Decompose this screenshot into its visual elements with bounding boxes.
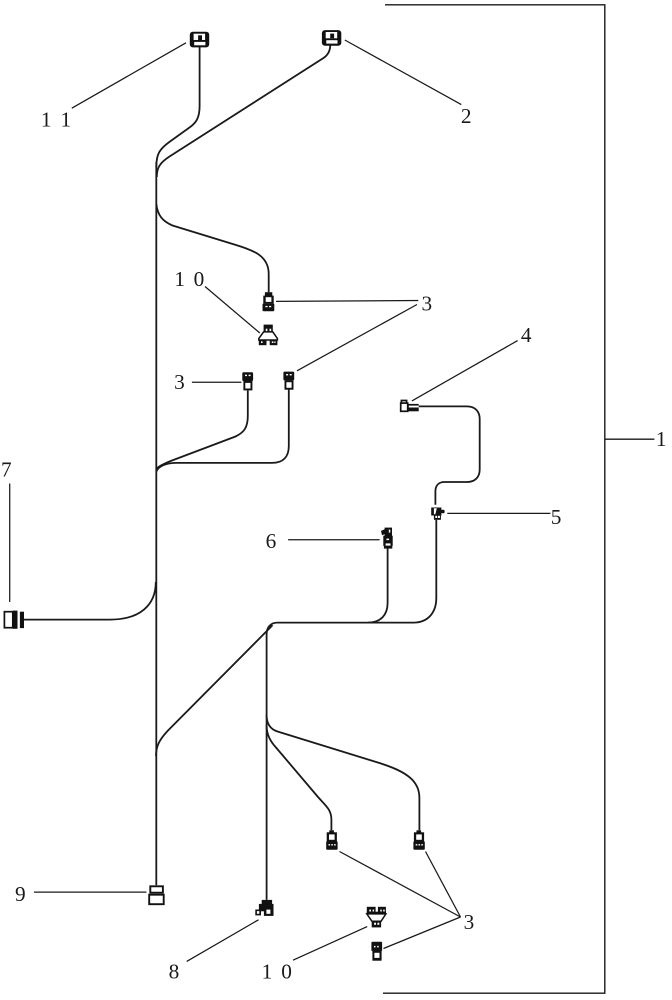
wire diagonal from junction to trunk bbox=[156, 625, 273, 756]
wire from connector 11 to trunk bbox=[156, 47, 199, 168]
wire from connector 2 to trunk bbox=[157, 45, 330, 178]
wire from connector 7 to trunk bbox=[24, 582, 156, 620]
svg-text:7: 7 bbox=[1, 457, 12, 481]
svg-text:0: 0 bbox=[281, 960, 292, 984]
connector 10 upper (Y adapter) bbox=[259, 325, 278, 346]
leader line from connector 3e to label 3 bottom bbox=[426, 852, 461, 918]
svg-text:9: 9 bbox=[15, 882, 26, 906]
wire from connector 5 down to junction and down to connector 8 bbox=[267, 520, 437, 900]
connector 11 bbox=[190, 32, 209, 48]
leader line from connector 3f to label 3 bottom bbox=[384, 917, 461, 949]
wire from connector 3c to trunk bbox=[156, 388, 288, 471]
wire branch to connector 3d (left lower) bbox=[267, 725, 332, 830]
connector 6 bbox=[381, 528, 393, 549]
svg-text:1: 1 bbox=[41, 108, 52, 132]
connector 3a bbox=[263, 292, 275, 311]
harness boundary bracket (item 1) bbox=[383, 5, 605, 993]
svg-text:3: 3 bbox=[421, 291, 432, 315]
leader line to label 3 left bbox=[192, 381, 242, 383]
wire from connector 3b to trunk bbox=[156, 390, 248, 469]
connector 9 bbox=[149, 886, 164, 904]
connector 3b bbox=[242, 372, 253, 390]
leader line from connector 3d to label 3 bottom bbox=[340, 852, 461, 918]
wire from connector 4 to connector 5 bbox=[419, 406, 480, 504]
svg-text:3: 3 bbox=[174, 370, 185, 394]
connector 3c bbox=[283, 372, 294, 390]
connector 5 bbox=[431, 508, 444, 520]
wire from connector 6 to horizontal run bbox=[368, 548, 388, 622]
leader line to label 2 bbox=[345, 40, 462, 105]
connector 3e bbox=[413, 830, 424, 850]
leader line from label 3 to connector 3c bbox=[297, 305, 417, 371]
leader line to label 9 bbox=[34, 891, 146, 893]
connector 7 bbox=[4, 611, 24, 629]
leader line to label 10 (lower) bbox=[293, 927, 367, 961]
svg-text:0: 0 bbox=[194, 267, 205, 291]
leader line to label 5 bbox=[447, 512, 550, 514]
leader line to label 1 bbox=[605, 438, 655, 440]
connector 3f bbox=[371, 942, 382, 961]
leader line to label 8 bbox=[187, 920, 259, 962]
leader line to label 6 bbox=[288, 539, 380, 541]
wire branch from trunk to connector 3a bbox=[156, 204, 268, 292]
wire trunk (main vertical) bbox=[155, 162, 157, 885]
svg-text:4: 4 bbox=[521, 323, 532, 347]
svg-text:2: 2 bbox=[461, 104, 472, 128]
svg-text:8: 8 bbox=[169, 960, 180, 984]
leader line to label 11 bbox=[72, 43, 186, 108]
svg-text:5: 5 bbox=[551, 505, 562, 529]
wire branch to connector 3e (right lower) bbox=[267, 715, 420, 830]
svg-text:1: 1 bbox=[60, 108, 71, 132]
svg-text:1: 1 bbox=[262, 960, 273, 984]
leader line to label 7 bbox=[9, 484, 11, 603]
connector 3d bbox=[326, 830, 337, 850]
svg-text:6: 6 bbox=[266, 529, 277, 553]
svg-text:3: 3 bbox=[464, 910, 475, 934]
leader line from connector 3a to label 3 bbox=[276, 300, 418, 303]
connector 8 bbox=[255, 900, 273, 916]
svg-text:1: 1 bbox=[174, 267, 185, 291]
leader line to label 10 (upper) bbox=[205, 287, 260, 334]
connector 4 bbox=[401, 401, 419, 412]
leader line to label 4 bbox=[412, 341, 518, 401]
svg-text:1: 1 bbox=[656, 427, 667, 451]
connector 10 lower (Y adapter) bbox=[367, 907, 386, 928]
connector 2 bbox=[322, 30, 341, 46]
